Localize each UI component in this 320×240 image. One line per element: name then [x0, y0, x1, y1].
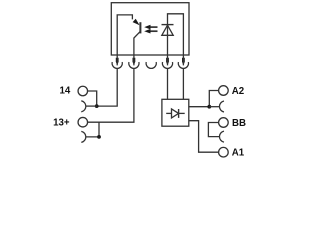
wire from terminal 14 circle: [87, 91, 96, 106]
wire clamp 13+ riser: [86, 122, 99, 137]
terminal circle BB: [219, 118, 229, 128]
svg-text:13+: 13+: [53, 118, 70, 129]
wire cup5 to U2: [182, 55, 184, 99]
svg-text:A2: A2: [232, 86, 244, 97]
clamp cup under BB: [219, 131, 224, 142]
terminal circle 13+: [78, 117, 88, 127]
diode D2 triangle: [172, 109, 179, 118]
output block U2: [162, 99, 189, 126]
light arrow 2: [150, 30, 158, 32]
wire cup4 to U2: [167, 55, 169, 99]
terminal clamp cup 3 (empty): [146, 62, 156, 68]
terminal circle A1: [219, 147, 229, 157]
terminal clamp cup 5: [178, 62, 188, 68]
node dot 14 junction: [95, 104, 99, 108]
wire A2 circle drop: [209, 91, 218, 107]
clamp cup under A2: [219, 101, 224, 112]
LED D1 cathode bar: [162, 24, 174, 26]
svg-text:BB: BB: [232, 118, 246, 129]
phototransistor T1 collector wire: [134, 31, 141, 55]
diode D2 cathode bar: [178, 109, 180, 118]
terminal pin arrow 5: [182, 58, 185, 66]
clamp cup under 14: [81, 101, 86, 112]
wire BB bridge: [208, 123, 219, 137]
LED D1 triangle: [162, 25, 173, 35]
wire clamp 14 to junction: [86, 105, 97, 107]
terminal clamp cup 1: [112, 62, 122, 68]
terminal pin arrow 4: [166, 58, 169, 66]
diode D2 right lead: [179, 112, 185, 114]
terminal circle A2: [219, 86, 229, 96]
svg-text:A1: A1: [232, 148, 245, 159]
wire from terminal 13+ to cup2 riser: [87, 55, 133, 122]
terminal pin arrow 2: [133, 58, 136, 66]
light arrow 1: [150, 26, 158, 28]
LED D1 loop wire: [168, 14, 184, 55]
terminal circle 14: [78, 86, 88, 96]
diode D2 left lead: [166, 112, 171, 114]
clamp cup under 13+: [81, 131, 86, 142]
wire U2 to A1: [189, 121, 219, 153]
phototransistor T1 emitter arrowhead: [133, 19, 140, 26]
phototransistor T1 base bar: [139, 22, 141, 33]
node dot 13+ junction: [97, 135, 101, 139]
terminal clamp cup 4: [162, 62, 172, 68]
node dot A2 junction: [207, 105, 211, 109]
phototransistor T1 emitter wire: [117, 15, 132, 55]
wire from cup1 down to node 14: [97, 55, 118, 106]
terminal pin arrow 1: [116, 58, 119, 66]
wire junction to clamp A2: [209, 106, 219, 108]
wire U2 to A2 junction: [189, 106, 210, 108]
svg-text:14: 14: [60, 85, 71, 96]
terminal clamp cup 2: [129, 62, 139, 68]
optocoupler box U1: [111, 3, 189, 55]
